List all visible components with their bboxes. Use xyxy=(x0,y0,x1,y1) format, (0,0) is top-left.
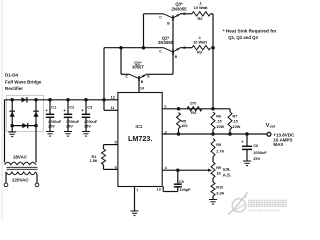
svg-text:C3: C3 xyxy=(87,105,93,110)
svg-text:out: out xyxy=(270,125,276,129)
svg-text:10W: 10W xyxy=(233,125,241,129)
svg-text:12: 12 xyxy=(111,96,115,100)
svg-text:6: 6 xyxy=(115,165,117,169)
svg-text:A.S.: A.S. xyxy=(223,173,231,178)
svg-text:4700uF: 4700uF xyxy=(48,120,62,124)
svg-text:C2: C2 xyxy=(69,105,75,110)
svg-text:100pF: 100pF xyxy=(180,188,192,192)
svg-text:3: 3 xyxy=(165,130,167,134)
svg-text:3.3K: 3.3K xyxy=(216,191,224,195)
svg-text:25V: 25V xyxy=(253,156,260,161)
svg-text:V.R.: V.R. xyxy=(223,167,231,172)
svg-text:R4: R4 xyxy=(191,110,197,115)
svg-text:2: 2 xyxy=(164,105,166,109)
svg-text:R3: R3 xyxy=(197,50,203,55)
svg-text:Rectifier: Rectifier xyxy=(5,86,23,91)
svg-text:13: 13 xyxy=(157,187,161,191)
svg-text:270: 270 xyxy=(190,101,197,106)
svg-text:4700uF: 4700uF xyxy=(84,120,98,124)
svg-text:* Heat Sink Required for: * Heat Sink Required for xyxy=(223,29,277,34)
svg-text:D1-D4: D1-D4 xyxy=(5,73,19,78)
svg-text:Full Wave Bridge: Full Wave Bridge xyxy=(5,79,42,84)
svg-text:11: 11 xyxy=(111,106,115,110)
svg-text:25V: 25V xyxy=(84,125,91,129)
svg-text:100: 100 xyxy=(181,124,187,128)
svg-text:R9: R9 xyxy=(216,166,221,170)
svg-text:.15: .15 xyxy=(216,120,221,124)
svg-text:.15: .15 xyxy=(233,120,238,124)
svg-text:7: 7 xyxy=(136,188,138,192)
svg-text:3055T: 3055T xyxy=(132,65,144,70)
svg-text:C5: C5 xyxy=(179,180,184,184)
svg-text:R10: R10 xyxy=(216,185,223,189)
svg-text:IC1: IC1 xyxy=(136,124,143,129)
svg-text:R7: R7 xyxy=(233,114,238,118)
svg-text:C6: C6 xyxy=(253,143,259,148)
svg-text:25V: 25V xyxy=(48,125,55,129)
svg-text:5: 5 xyxy=(115,141,117,145)
svg-text:Q1, Q2 and Q3: Q1, Q2 and Q3 xyxy=(228,35,258,40)
svg-text:10W: 10W xyxy=(216,125,224,129)
svg-text:www.elecfans.com: www.elecfans.com xyxy=(248,208,279,212)
svg-text:10 Watt: 10 Watt xyxy=(193,39,208,44)
svg-text:25V: 25V xyxy=(66,125,73,129)
svg-text:18VAC: 18VAC xyxy=(13,154,28,159)
svg-text:1K: 1K xyxy=(216,171,221,175)
svg-text:2.7K: 2.7K xyxy=(216,149,224,153)
svg-text:C1: C1 xyxy=(51,105,57,110)
svg-text:LM723.: LM723. xyxy=(128,134,152,143)
svg-text:10 Watt: 10 Watt xyxy=(194,5,209,10)
svg-text:2N3055: 2N3055 xyxy=(158,40,174,45)
svg-text:4700uF: 4700uF xyxy=(66,120,80,124)
svg-text:220VAC: 220VAC xyxy=(12,177,29,182)
svg-text:R6: R6 xyxy=(216,114,221,118)
svg-text:R2: R2 xyxy=(197,16,203,21)
svg-text:1.5K: 1.5K xyxy=(90,159,98,163)
svg-text:R8: R8 xyxy=(216,143,221,147)
svg-text:1000uF: 1000uF xyxy=(253,150,267,155)
svg-text:10: 10 xyxy=(140,87,144,91)
svg-text:MAX: MAX xyxy=(273,142,283,147)
svg-text:R5: R5 xyxy=(181,119,186,123)
svg-text:2N3055: 2N3055 xyxy=(172,6,188,11)
